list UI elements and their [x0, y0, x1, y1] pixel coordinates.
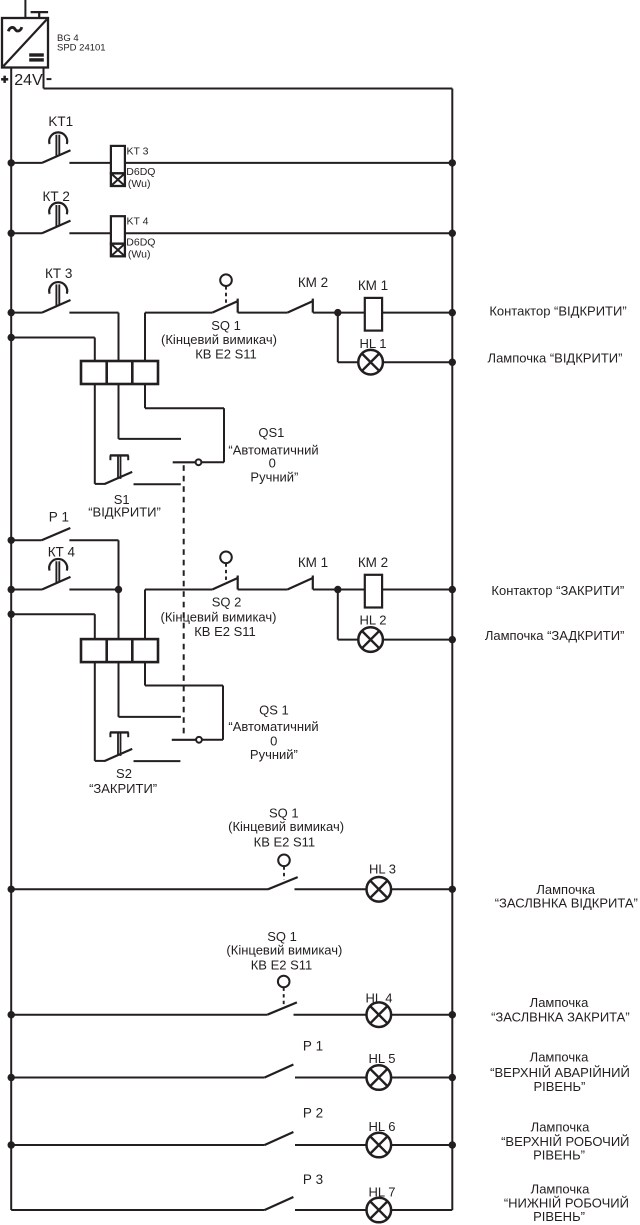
svg-text:KT 3: KT 3: [127, 145, 149, 157]
svg-text:Контактор “ВІДКРИТИ”: Контактор “ВІДКРИТИ”: [489, 304, 626, 319]
wire AC input to power supply: [24, 0, 26, 18]
contact KT2 blade: [42, 221, 71, 234]
wire HL3 mid: [295, 888, 367, 890]
node row1 left: [8, 159, 15, 166]
wire box2 col2 down to QS1-2 auto contact: [118, 662, 120, 717]
node HL3 right: [449, 886, 456, 893]
wire row2 left: [11, 232, 42, 234]
node row1 right: [449, 159, 456, 166]
svg-text:КВ Е2 S11: КВ Е2 S11: [254, 835, 316, 850]
contact KT3 actuator stem: [55, 284, 57, 306]
wire HL5 left: [11, 1077, 264, 1079]
node row3 right: [449, 309, 456, 316]
wire KM2 to coil KM1: [313, 312, 365, 314]
wire HL7 right: [391, 1209, 452, 1211]
contact KM2 blade: [287, 301, 312, 313]
svg-text:D6DQ: D6DQ: [126, 236, 155, 248]
wire box1 col3 down to QS1 pivot: [144, 384, 146, 409]
wire down to interlock box2 col2: [118, 590, 120, 640]
wire HL6 right: [391, 1144, 452, 1146]
svg-text:Лампочка: Лампочка: [530, 995, 589, 1010]
wire box2 col3 down to QS1-2 pivot: [144, 662, 146, 686]
contact P1 blade: [42, 528, 71, 540]
wire HL6 mid: [295, 1144, 367, 1146]
contact KT1 delay arc: [49, 132, 67, 144]
node KT4 row right: [449, 586, 456, 593]
QS1 mechanical linkage (dashed): [183, 465, 185, 737]
svg-text:Р 1: Р 1: [303, 1039, 323, 1054]
svg-text:КТ 3: КТ 3: [45, 266, 72, 281]
contact KT4 delay arc: [49, 559, 67, 571]
svg-text:Лампочка: Лампочка: [531, 1182, 590, 1197]
svg-text:Р 2: Р 2: [303, 1106, 323, 1121]
svg-text:РІВЕНЬ”: РІВЕНЬ”: [533, 1147, 585, 1162]
AC input terminal mark: [31, 11, 48, 13]
wire coil KM1 to right rail: [382, 312, 452, 314]
contact KT1 actuator stem: [55, 135, 57, 157]
contact SQ1 blade: [212, 301, 237, 313]
svg-text:0: 0: [270, 733, 277, 748]
wire SQ1 to KM2: [238, 312, 288, 314]
svg-text:HL 2: HL 2: [360, 613, 387, 628]
wire to SQ2: [145, 589, 212, 591]
node stub row2: [8, 611, 15, 618]
selector switch QS1 pivot: [196, 459, 202, 465]
wire row3 to interlock: [69, 312, 118, 314]
node HL5 left: [8, 1074, 15, 1081]
right (-) rail: [451, 89, 453, 1211]
wire P1 left: [11, 539, 41, 541]
svg-text:Лампочка: Лампочка: [531, 1119, 590, 1134]
svg-text:КМ 2: КМ 2: [358, 555, 388, 570]
lamp HL 5: [367, 1065, 392, 1090]
power supply unit BG4 (AC/DC converter): [2, 18, 48, 68]
wire KM1 to coil KM2: [313, 589, 365, 591]
selector switch QS1-2 pivot: [196, 737, 202, 743]
lamp HL 1: [358, 350, 383, 375]
svg-text:Р 3: Р 3: [303, 1172, 323, 1187]
wire SQ2 to KM1: [238, 589, 288, 591]
svg-text:“ЗАСЛВНКА ВІДКРИТА”: “ЗАСЛВНКА ВІДКРИТА”: [495, 896, 638, 911]
lamp HL 4: [367, 1002, 392, 1027]
svg-text:HL 6: HL 6: [369, 1119, 396, 1134]
wire row3 left: [11, 312, 42, 314]
wire row2 mid: [69, 232, 111, 234]
svg-text:D6DQ: D6DQ: [126, 166, 155, 178]
svg-text:SQ 1: SQ 1: [211, 318, 241, 333]
svg-text:КМ 1: КМ 1: [298, 555, 328, 570]
wire HL3 right: [392, 888, 453, 890]
svg-text:HL 4: HL 4: [366, 991, 393, 1006]
wire HL1 to right rail: [383, 361, 452, 363]
wire stub row1: [11, 337, 95, 339]
svg-text:(Wu): (Wu): [128, 248, 151, 260]
wire stub row2: [11, 613, 95, 615]
wire box1 col1 down to S1: [94, 384, 96, 484]
svg-text:“Автоматичний: “Автоматичний: [228, 719, 318, 734]
svg-text:“ВЕРХНІЙ АВАРІЙНИЙ: “ВЕРХНІЙ АВАРІЙНИЙ: [490, 1065, 630, 1080]
wire HL2 to right rail: [383, 639, 452, 641]
wire row2 right: [125, 232, 452, 234]
push button S1: [110, 454, 129, 456]
node HL5 right: [449, 1074, 456, 1081]
contactor coil KM2: [365, 575, 382, 608]
contact KT2 actuator stem: [55, 205, 57, 227]
contact Р1 blade: [265, 1065, 294, 1078]
node HL3 left: [8, 886, 15, 893]
selector switch QS1-2 blade: [172, 739, 196, 741]
wire down to interlock box col2: [118, 313, 120, 361]
S1 fixed contact wire (QS1 manual side): [134, 483, 181, 485]
svg-text:“ВІДКРИТИ”: “ВІДКРИТИ”: [88, 505, 161, 520]
limit switch SQ2 actuator: [220, 552, 232, 564]
push button S2: [110, 731, 129, 733]
node HL1 right: [449, 359, 456, 366]
svg-text:(Кінцевий вимикач): (Кінцевий вимикач): [161, 332, 277, 347]
svg-text:KT 4: KT 4: [127, 216, 149, 228]
wire HL5 mid: [295, 1077, 367, 1079]
svg-text:КВ Е2 S11: КВ Е2 S11: [195, 347, 257, 362]
node row2 left: [8, 230, 15, 237]
wire to lamp HL2: [338, 639, 358, 641]
svg-text:(Кінцевий вимикач): (Кінцевий вимикач): [161, 610, 277, 625]
mechanical interlock block 1: [81, 361, 158, 384]
node HL2 branch: [334, 586, 341, 593]
svg-text:РІВЕНЬ”: РІВЕНЬ”: [533, 1079, 585, 1094]
svg-text:KT1: KT1: [48, 114, 73, 129]
svg-text:S2: S2: [116, 766, 132, 781]
svg-text:SPD 24101: SPD 24101: [57, 43, 106, 54]
wire to lamp HL1: [338, 361, 358, 363]
contact SQ1 (HL4) blade: [267, 1002, 297, 1014]
node KT4 left: [8, 586, 15, 593]
wire HL7 mid: [295, 1209, 367, 1211]
power supply minus terminal wire: [43, 68, 45, 89]
wire HL4 mid: [294, 1014, 367, 1016]
wire KT4 left: [11, 589, 42, 591]
svg-text:“ЗАСЛВНКА ЗАКРИТА”: “ЗАСЛВНКА ЗАКРИТА”: [491, 1010, 630, 1025]
svg-text:Лампочка: Лампочка: [530, 1050, 589, 1065]
svg-text:QS 1: QS 1: [259, 702, 289, 717]
wire KT4 to junction: [69, 589, 118, 591]
selector switch QS1 blade: [173, 461, 196, 463]
wire down to HL2: [337, 590, 339, 640]
node stub row1: [8, 334, 15, 341]
svg-text:Р 1: Р 1: [49, 509, 69, 524]
svg-text:HL 1: HL 1: [360, 336, 387, 351]
svg-text:КМ 1: КМ 1: [358, 278, 388, 293]
svg-text:0: 0: [269, 456, 276, 471]
limit switch SQ1 (HL4) actuator: [278, 976, 290, 988]
svg-text:Контактор “ЗАКРИТИ”: Контактор “ЗАКРИТИ”: [491, 583, 624, 598]
node row2 right: [449, 230, 456, 237]
contact KT4 blade: [42, 577, 71, 590]
left (+) rail: [10, 68, 12, 1211]
node HL1 branch: [334, 309, 341, 316]
limit switch SQ1 actuator: [220, 274, 232, 286]
svg-text:“ЗАКРИТИ”: “ЗАКРИТИ”: [89, 781, 157, 796]
node HL4 right: [449, 1011, 456, 1018]
svg-text:КМ 2: КМ 2: [298, 275, 328, 290]
lamp HL 6: [367, 1133, 392, 1158]
label +24V-: [1, 78, 8, 81]
svg-text:HL 7: HL 7: [369, 1185, 396, 1200]
wire box1 col2 down to QS1 auto contact: [118, 384, 120, 439]
contact KT3 delay arc: [49, 282, 67, 294]
svg-text:(Кінцевий вимикач): (Кінцевий вимикач): [228, 819, 344, 834]
svg-text:QS1: QS1: [258, 425, 284, 440]
node HL2 right: [449, 636, 456, 643]
node junction P1/KT4: [115, 586, 122, 593]
contact SQ1 (HL3) blade: [268, 877, 298, 889]
contact KT3 blade: [42, 300, 71, 313]
coil KT 3 indicator square with X: [111, 173, 125, 186]
svg-text:Ручний”: Ручний”: [250, 747, 298, 762]
wire P1 right: [69, 539, 118, 541]
svg-text:КВ Е2 S11: КВ Е2 S11: [251, 958, 313, 973]
relay coil KT 3: [111, 146, 125, 173]
mechanical interlock block 2: [81, 639, 158, 662]
wire down to interlock box2 col1: [94, 614, 96, 639]
svg-text:КВ Е2 S11: КВ Е2 S11: [194, 624, 256, 639]
contact Р3 blade: [265, 1197, 294, 1210]
svg-text:КТ 4: КТ 4: [48, 545, 76, 560]
wire HL5 right: [391, 1077, 452, 1079]
S2 fixed contact wire (QS1 manual side): [134, 760, 181, 762]
svg-text:(Wu): (Wu): [128, 178, 151, 190]
svg-text:Лампочка “ВІДКРИТИ”: Лампочка “ВІДКРИТИ”: [488, 351, 623, 366]
wire P1 down to KT4 row: [118, 540, 120, 589]
contact SQ2 blade: [212, 578, 237, 590]
wire down to HL1: [337, 313, 339, 363]
wire down to interlock box col1: [94, 338, 96, 362]
node HL6 right: [449, 1141, 456, 1148]
lamp HL 2: [358, 627, 383, 652]
lamp HL 7: [367, 1198, 392, 1223]
svg-text:РІВЕНЬ”: РІВЕНЬ”: [533, 1209, 585, 1224]
svg-text:(Кінцевий вимикач): (Кінцевий вимикач): [226, 942, 342, 957]
wire interlock2 col3 up to SQ2 branch: [144, 590, 146, 640]
wire HL4 right: [392, 1014, 453, 1016]
svg-text:HL 5: HL 5: [369, 1051, 396, 1066]
wire to SQ1: [145, 312, 212, 314]
wire HL6 left: [11, 1144, 264, 1146]
wire row1 right: [125, 162, 452, 164]
contact KT4 actuator stem: [55, 561, 57, 583]
wire interlock col3 up to SQ1 branch: [144, 313, 146, 361]
top (-) bus wire: [44, 88, 453, 90]
contact KT1 blade: [42, 150, 71, 163]
wire HL7 left: [11, 1209, 264, 1211]
wire HL4 left: [11, 1014, 267, 1016]
lamp HL 3: [367, 877, 392, 902]
node HL4 left: [8, 1011, 15, 1018]
node row3 left: [8, 309, 15, 316]
svg-text:24V: 24V: [14, 72, 43, 89]
wire row1 mid: [69, 162, 111, 164]
limit switch SQ1 (HL3) actuator: [278, 855, 290, 867]
wire box2 col1 down to S2: [94, 662, 96, 761]
wire coil KM2 to right rail: [382, 589, 452, 591]
svg-text:HL 3: HL 3: [369, 862, 396, 877]
contact Р2 blade: [265, 1132, 294, 1145]
contact KM1 blade: [287, 578, 312, 590]
wire HL3 left: [11, 888, 268, 890]
svg-text:Ручний”: Ручний”: [250, 470, 298, 485]
contact KT2 delay arc: [49, 203, 67, 215]
svg-text:Лампочка “ЗАДКРИТИ”: Лампочка “ЗАДКРИТИ”: [485, 628, 625, 643]
wire row1 left: [11, 162, 42, 164]
coil KT 4 indicator square with X: [111, 244, 125, 257]
node HL6 left: [8, 1141, 15, 1148]
relay coil KT 4: [111, 216, 125, 243]
node P1 left: [8, 537, 15, 544]
contactor coil KM1: [365, 298, 382, 331]
svg-text:SQ 2: SQ 2: [212, 595, 242, 610]
